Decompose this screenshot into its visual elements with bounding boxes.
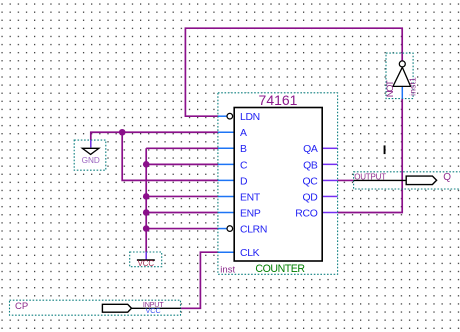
svg-text:QC: QC <box>303 176 319 187</box>
svg-text:COUNTER: COUNTER <box>255 263 305 275</box>
svg-text:CLRN: CLRN <box>240 224 267 235</box>
svg-text:74161: 74161 <box>259 92 298 108</box>
svg-text:CP: CP <box>15 301 28 312</box>
svg-text:GND: GND <box>82 156 100 165</box>
svg-text:C: C <box>240 160 248 171</box>
svg-text:inst1: inst1 <box>408 77 418 96</box>
svg-text:VCC: VCC <box>138 259 155 268</box>
svg-text:ENT: ENT <box>240 192 261 203</box>
svg-text:QD: QD <box>303 192 318 203</box>
svg-text:Q: Q <box>443 172 451 183</box>
svg-text:NOT: NOT <box>385 80 396 97</box>
svg-text:inst: inst <box>220 265 235 276</box>
svg-text:QA: QA <box>303 144 318 155</box>
svg-text:CLK: CLK <box>240 248 260 259</box>
svg-text:B: B <box>240 144 247 155</box>
svg-text:LDN: LDN <box>240 112 260 123</box>
svg-text:OUTPUT: OUTPUT <box>354 172 386 181</box>
svg-text:QB: QB <box>303 160 318 171</box>
svg-text:ENP: ENP <box>240 208 261 219</box>
svg-text:D: D <box>240 176 247 187</box>
svg-text:VCC: VCC <box>146 306 161 315</box>
svg-text:RCO: RCO <box>295 208 317 219</box>
svg-text:A: A <box>240 128 247 139</box>
